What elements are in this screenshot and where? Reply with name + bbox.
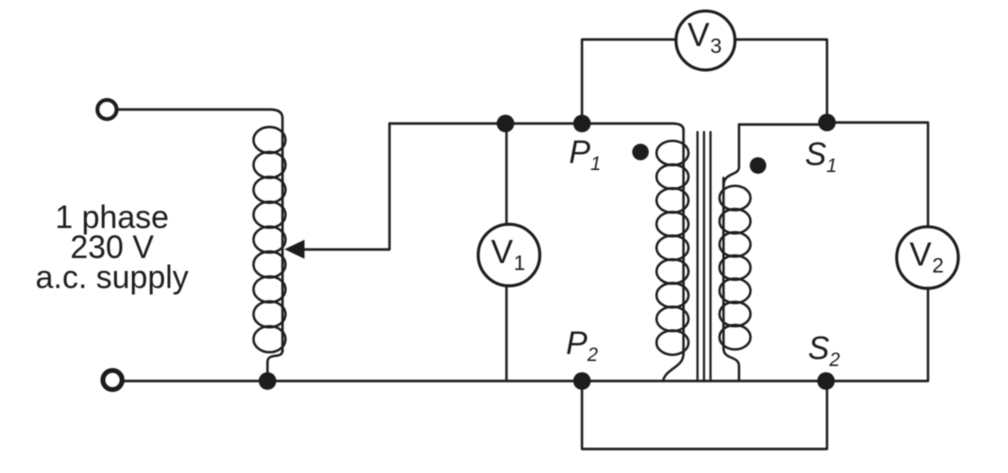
svg-text:V: V bbox=[491, 233, 513, 270]
svg-text:1: 1 bbox=[514, 252, 526, 275]
svg-text:2: 2 bbox=[932, 255, 944, 278]
svg-text:V: V bbox=[909, 236, 931, 273]
svg-text:3: 3 bbox=[710, 35, 722, 58]
svg-text:a.c. supply: a.c. supply bbox=[36, 259, 189, 295]
svg-text:V: V bbox=[687, 16, 709, 53]
